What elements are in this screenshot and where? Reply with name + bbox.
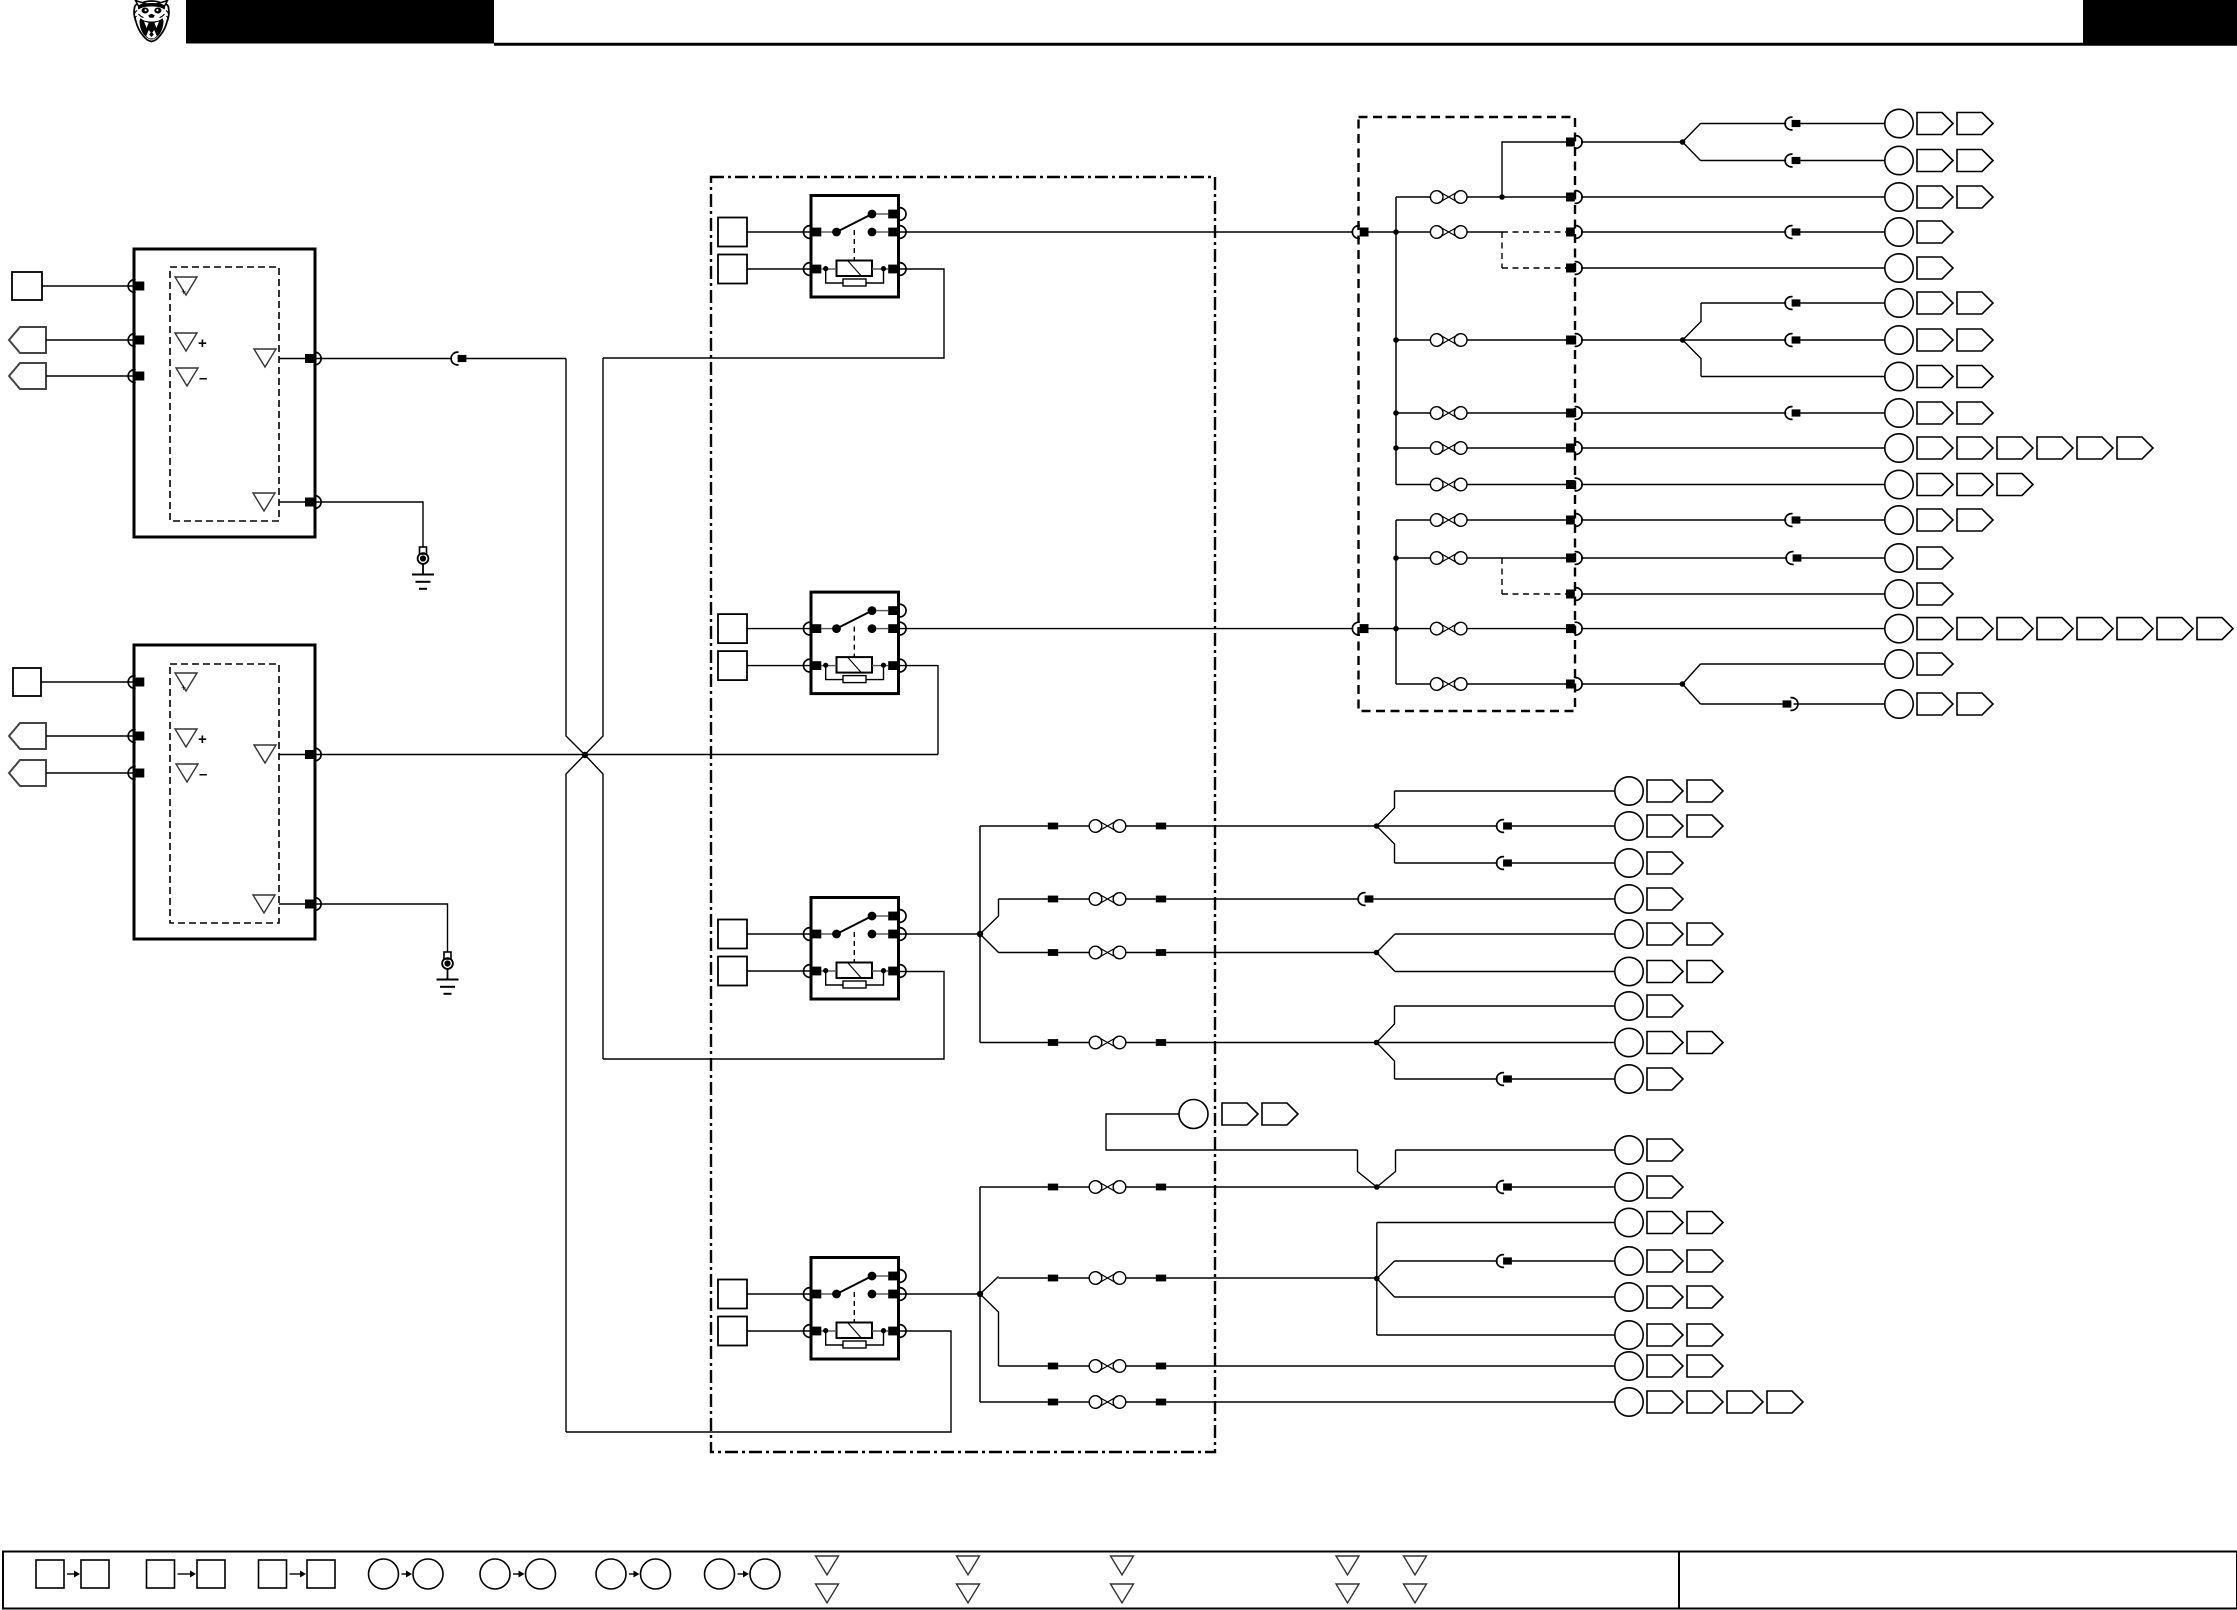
K3 bus vertical [979,826,981,1043]
fusebox edge pin O6 [1566,407,1582,420]
wire row 791 [1395,790,1615,792]
wire A1 output to in-line connector X1 [315,358,451,360]
V drop right [1377,1150,1396,1187]
module A1 inner dashed boundary [170,267,279,521]
wire marker row 1402.1 [1647,1391,1683,1413]
wire wire F18 row 1402 b [1058,1401,1089,1403]
wire wire F12 row 899 b [1058,898,1089,900]
splice eyelet row 558 [1885,544,1913,572]
wire row 448 [1581,447,1885,449]
wire wire F17 row 1366 d [1166,1365,1615,1367]
fuse F8 [1430,552,1467,565]
relay K4 input terminal a [718,1280,747,1309]
splice eyelet row 1187 [1615,1173,1643,1201]
legend symbol eyelet pair 4 b [750,1559,780,1589]
legend symbol eyelet pair 3 b [641,1559,671,1589]
legend triangle T4 top [1336,1556,1359,1575]
wire row 413 [1581,412,1786,414]
wire row 1079 b [1512,1078,1615,1080]
wire row 340 [1683,339,1787,341]
in-line connector on row 1187 [1497,1181,1512,1194]
wire row 160 b [1800,160,1884,162]
splice eyelet row 340 [1885,326,1913,354]
wire row 123 b [1800,123,1884,125]
wire marker row 594.1 [1917,583,1953,605]
legend symbol eyelet pair 2 a [480,1559,510,1589]
relay K2 [803,592,906,694]
junction on row F1 [1499,194,1505,200]
splice eyelet row 1261 [1615,1247,1643,1275]
wire marker row 628.2 [1957,618,1993,640]
wire bus to fuse F7 [1396,519,1430,521]
splice eyelet row 123 [1885,109,1913,137]
splice eyelet row 628 [1885,614,1913,642]
legend arrow eyelet pair 1 [402,1573,408,1575]
connector arrow P4 [9,760,46,786]
wire marker row 791.1 [1647,780,1683,802]
splice eyelet row 1222 [1615,1208,1643,1236]
wire row 1006 [1395,1005,1615,1007]
triangle pin marker A1 plus input [175,333,197,351]
splice eyelet row 1006 [1615,992,1643,1020]
wire A1 output triangle to pin [279,358,305,360]
wire S2 to A2 pin1 [41,681,134,683]
Y-split junction at 142 [1680,139,1686,145]
wire row 1335 [1377,1334,1615,1336]
fusebox edge pin O10 [1566,552,1582,565]
wire P1 to A1 pin2 [46,339,134,341]
in-line connector X1 [451,352,466,365]
splice eyelet row 413 [1885,399,1913,427]
splice eyelet row 704 [1885,690,1913,718]
wire fuse F7 to edge pin [1467,519,1566,521]
splice band wire F17 row 1366 b [1156,1363,1166,1370]
bracket diag to 1261 [1377,1261,1395,1279]
triangle pin marker A1 minus input [176,368,198,386]
wire terminal to K3 pin 2 [747,970,811,972]
wire marker row 1297.2 [1687,1286,1723,1308]
splice band wire F11 row 826 b [1156,823,1166,830]
wire wire F12 row 899 [999,898,1048,900]
fusebox entry pin E1 [1352,226,1368,239]
splice eyelet row 303 [1885,289,1913,317]
wire marker 704.1 [1917,693,1953,715]
junction row 952 [1374,950,1380,956]
wire row 704 b [1794,703,1885,705]
wire wire F18 row 1402 d [1166,1401,1615,1403]
legend symbol connector pair 2 b [197,1560,225,1588]
wire row 413 b [1800,412,1884,414]
wire marker row 1042.2 [1687,1032,1723,1054]
fuse wire F14 row 1042 [1089,1036,1126,1049]
wire marker row 303.2 [1957,292,1993,314]
crossover junction [582,752,588,758]
module A2 pin 2 [128,730,144,743]
svg-text:+: + [198,731,207,748]
wire marker row 448.2 [1957,437,1993,459]
wire marker 1114.2 [1262,1103,1298,1125]
wire fuse F3 to edge pin [1467,339,1566,341]
wire marker row 1079.1 [1647,1068,1683,1090]
wire marker row 628.3 [1997,618,2033,640]
fusebox edge pin O11 [1566,588,1582,601]
in-line connector on row 1079 [1497,1073,1512,1086]
wire O5 to bracket [1581,339,1683,341]
wire row 1222 [1377,1222,1615,1224]
wire row 863 [1395,862,1498,864]
wire marker row 1187.1 [1647,1176,1683,1198]
module A2 inner dashed boundary [170,664,279,923]
triangle pin marker A1 supply [175,277,197,295]
splice eyelet row 899 [1615,885,1643,913]
wire marker row 448.1 [1917,437,1953,459]
wire wire F16 row 1278 d [1166,1277,1377,1279]
wire row 1366 [1614,1365,1616,1367]
wire row 1079 [1395,1078,1498,1080]
wire marker 1114.1 [1222,1103,1258,1125]
wire wire F17 row 1366 c [1126,1365,1156,1367]
wire row 664 [1701,663,1885,665]
splice eyelet row 934 [1615,920,1643,948]
wire marker row 1366.1 [1647,1355,1683,1377]
wire K1 output to fusebox entry [899,231,1353,233]
wire A2 output triangle to pin [279,754,305,756]
triangle pin marker A2 plus input [175,729,197,747]
wire marker row 1335.1 [1647,1324,1683,1346]
wire row 520 b [1800,519,1884,521]
wire row 1042 [1377,1042,1615,1044]
wire wire F12 row 899 c [1126,898,1156,900]
wire P2 to A1 pin3 [46,375,134,377]
wire row 704 [1701,703,1783,705]
wire row 340 b [1800,339,1884,341]
relay K4 [803,1258,906,1360]
module A2 outline [134,645,315,939]
in-line connector on row 232 [1785,226,1800,239]
wire wire F14 row 1042 [980,1042,1048,1044]
splice band wire F15 row 1187 a [1048,1184,1058,1191]
wire row 1150 [1396,1149,1615,1151]
legend arrow connector pair 3 [290,1573,302,1575]
crossover continuation to bus B lower [585,755,603,1059]
fuse wire F17 row 1366 [1089,1360,1126,1373]
splice eyelet row 268 [1885,254,1913,282]
wire wire F17 row 1366 b [1058,1365,1089,1367]
relay K4 input terminal b [718,1317,747,1346]
ground G2 [437,952,459,994]
wire marker row 1402.3 [1727,1391,1763,1413]
wire row 232 b [1800,231,1884,233]
wire wire F18 row 1402 c [1126,1401,1156,1403]
wire marker row 628.8 [2197,618,2233,640]
fusebox edge pin O4 [1566,262,1582,275]
wire fuse F9 to edge pin [1467,628,1566,630]
fuse wire F12 row 899 [1089,893,1126,906]
wire row 863 b [1512,862,1615,864]
wire row 1402 [1614,1401,1616,1403]
junction row 826 [1374,823,1380,829]
junction row 1187 [1374,1184,1380,1190]
bus 1 junction at 413 [1393,410,1399,416]
Y arm 1042 up [1377,1006,1395,1043]
wire row 1187 b [1512,1186,1615,1188]
bus 2 junction at 628.6 [1393,626,1399,632]
module A2 pin 1 [128,676,144,689]
wire wire F11 row 826 [980,825,1048,827]
wire marker row 1297.1 [1647,1286,1683,1308]
wire marker row 484.2 [1957,474,1993,496]
fusebox edge pin O2 [1566,191,1582,204]
wire bus to fuse F10 [1396,683,1430,685]
bus 1 junction at 448 [1393,445,1399,451]
wire row 1261 [1395,1260,1498,1262]
in-line connector on row 520 [1785,514,1800,527]
wire row 268 [1581,267,1885,269]
dashed link row F2 to edge [1502,231,1566,233]
wire row 558 b [1801,557,1884,559]
fuse wire F18 row 1402 [1089,1396,1126,1409]
wire marker row 1222.1 [1647,1212,1683,1234]
fusebox bus 1 [1395,197,1397,485]
wire marker row 123.1 [1917,113,1953,135]
bus 1 junction at 340 [1393,337,1399,343]
wire marker row 1402.4 [1767,1391,1803,1413]
wire row 197 [1581,196,1885,198]
wire wire F15 row 1187 b [1058,1186,1089,1188]
dashed link row F8 down to row 594 [1501,558,1503,594]
wire row 934 [1395,933,1615,935]
legend arrow connector pair 2 [178,1573,192,1575]
Y arm 952 up [1377,934,1396,953]
Y branch down [1683,142,1701,161]
junction row 1042 [1374,1040,1380,1046]
relay K1 [803,196,906,298]
legend symbol eyelet pair 1 a [369,1559,399,1589]
fuse F7 [1430,514,1467,527]
wire terminal to K1 pin 2 [747,268,811,270]
svg-text:+: + [198,335,207,352]
K4 bracket arm up [980,1277,999,1295]
legend divider [1678,1552,1680,1609]
fuse wire F16 row 1278 [1089,1272,1126,1285]
K4 bracket arm down [980,1294,999,1366]
wire A1 pin5 to ground G1 [315,502,423,547]
wire marker row 1150.1 [1647,1139,1683,1161]
wire marker row 484.3 [1997,474,2033,496]
wire marker row 628.1 [1917,618,1953,640]
wire marker row 448.4 [2037,437,2073,459]
corner 1222 [1376,1222,1378,1224]
module A2 output pin 5 [305,898,321,911]
wire marker row 520.1 [1917,509,1953,531]
vertical bus A (down to crossover) [566,359,585,756]
dashed link row 594 to edge [1502,593,1566,595]
legend arrow eyelet pair 2 [513,1573,520,1575]
wire wire F15 row 1187 d [1166,1186,1377,1188]
wire row 123 [1701,123,1787,125]
wire bus to fuse F2 [1396,231,1430,233]
svg-text:–: – [199,766,207,783]
fusebox entry pin E2 [1352,622,1368,635]
splice eyelet row 863 [1615,849,1643,877]
wire bus to fuse F9 [1396,628,1430,630]
splice junction K4 [977,1291,983,1297]
splice eyelet row 826 [1615,812,1643,840]
wire row F1 up to row 142 [1502,142,1566,197]
wire marker row 413.1 [1917,402,1953,424]
bus 1 junction at 232 [1393,229,1399,235]
splice band wire F14 row 1042 a [1048,1039,1058,1046]
splice eyelet row 520 [1885,506,1913,534]
wire bus to fuse F1 [1396,196,1430,198]
legend triangle T2 bottom [957,1584,980,1603]
svg-text:–: – [199,370,207,387]
relay K3 [803,898,906,1000]
Y branch down 684 [1682,684,1700,704]
triangle pin marker A2 supply [175,673,197,691]
bracket vertical 1222-1335 [1376,1223,1378,1336]
wire marker row 197.1 [1917,186,1953,208]
in-line connector on row 413 [1785,407,1800,420]
wire row 1187 [1377,1186,1498,1188]
wire E1 to bus 1 [1369,231,1397,233]
legend triangle T4 bottom [1336,1584,1359,1603]
wire wire F11 row 826 d [1166,825,1376,827]
relay K1 input terminal b [718,255,747,284]
wire marker row 340.1 [1917,329,1953,351]
splice eyelet row 971 [1615,957,1643,985]
splice eyelet row 1079 [1615,1065,1643,1093]
relay K2 input terminal a [718,614,747,643]
splice band wire F13 row 952 a [1048,949,1058,956]
fusebox edge pin O1 [1566,136,1582,149]
legend symbol eyelet pair 4 a [705,1559,735,1589]
splice band wire F14 row 1042 b [1156,1039,1166,1046]
wire marker row 1042.1 [1647,1032,1683,1054]
wire fuse F2 to dashed junction [1467,231,1502,233]
splice eyelet row 376 [1885,362,1913,390]
wire marker row 664.1 [1917,653,1953,675]
wire fuse F1 to edge pin [1467,196,1566,198]
legend symbol connector pair 3 a [259,1560,287,1588]
bracket arm up [1683,303,1701,340]
splice eyelet row 484 [1885,470,1913,498]
wire O13 to Y-split [1581,683,1682,685]
wire wire F17 row 1366 [999,1365,1048,1367]
wire marker row 628.6 [2117,618,2153,640]
fusebox edge pin O7 [1566,442,1582,455]
module A1 pin 1 [128,280,144,293]
in-line connector on row 1261 [1497,1255,1512,1268]
wire marker row 232.1 [1917,221,1953,243]
module A1 output pin 5 [305,496,321,509]
K4 bus vertical [979,1187,981,1402]
wire wire F13 row 952 b [1058,952,1089,954]
triangle pin marker A1 output [254,349,276,367]
wire wire F14 row 1042 b [1058,1042,1089,1044]
fuse F3 [1430,334,1467,347]
wire marker row 448.6 [2117,437,2153,459]
V drop left [1358,1150,1377,1187]
splice junction K3 [977,931,983,937]
legend arrow eyelet pair 3 [629,1573,635,1575]
wire wire F18 row 1402 [980,1401,1048,1403]
wire row 160 [1701,160,1787,162]
Y arm 1042 down [1377,1043,1395,1080]
wire row 232 [1581,231,1786,233]
wire bus to fuse F4 [1396,412,1430,414]
in-line connector row 899 [1358,893,1373,906]
fusebox edge pin O5 [1566,334,1582,347]
wire wire F15 row 1187 c [1126,1186,1156,1188]
wire marker row 558.1 [1917,547,1953,569]
junction row 1278 [1374,1276,1380,1282]
legend symbol connector pair 3 b [307,1560,335,1588]
Y arm 826 up [1377,791,1395,826]
wire row 594 [1581,593,1885,595]
wire E2 to bus 2 [1369,628,1397,630]
splice eyelet row 448 [1885,434,1913,462]
legend symbol eyelet pair 3 a [596,1559,626,1589]
in-line connector on row 558 [1786,552,1801,565]
wire marker row 863.1 [1647,852,1683,874]
K3 bracket arm down [980,934,999,953]
connector arrow P2 [9,363,46,389]
legend arrow connector pair 1 [67,1573,75,1575]
dashed link down to row 268 [1501,232,1503,268]
wire A2 pin5 to ground G2 [315,904,448,952]
K3 bracket arm up [980,899,999,934]
wire A2 output row through crossover [315,754,938,756]
splice eyelet row 1042 [1615,1028,1643,1056]
wire terminal to K4 pin 2 [747,1330,811,1332]
triangle pin marker A2 output [254,745,276,763]
bracket junction at 340 [1680,337,1686,343]
fuse wire F15 row 1187 [1089,1181,1126,1194]
wire wire F15 row 1187 [980,1186,1048,1188]
fusebox dashed boundary [1359,117,1576,711]
wire terminal to K2 pin 1 [747,628,811,630]
splice band wire F15 row 1187 b [1156,1184,1166,1191]
wire marker row 1366.2 [1687,1355,1723,1377]
splice band wire F17 row 1366 a [1048,1363,1058,1370]
legend symbol eyelet pair 2 b [526,1559,556,1589]
page number box (black) [2083,0,2237,44]
dash-dot boundary (relay module) [711,177,1215,1452]
fusebox edge pin O9 [1566,514,1582,527]
Y branch up [1683,124,1701,143]
wire marker row 826.2 [1687,815,1723,837]
wire bus to fuse F5 [1396,447,1430,449]
wire wire F16 row 1278 b [1058,1277,1089,1279]
wire P4 to A2 pin3 [46,772,134,774]
legend triangle T1 bottom [816,1584,839,1603]
wire row 899 [1373,898,1614,900]
fuse F4 [1430,407,1467,420]
splice band wire F12 row 899 a [1048,896,1058,903]
module A1 pin 3 [128,370,144,383]
wire wire F14 row 1042 c [1126,1042,1156,1044]
module A2 pin 3 [128,767,144,780]
wire marker row 376.2 [1957,366,1993,388]
in-line connector on row 863 [1497,857,1512,870]
wire marker row 1261.1 [1647,1250,1683,1272]
wire eyelet 1114 loop [1106,1114,1358,1150]
wire marker row 268.1 [1917,257,1953,279]
wire wire F13 row 952 [999,952,1048,954]
svg-text:+: + [181,683,186,693]
wire terminal to K2 pin 2 [747,665,811,667]
